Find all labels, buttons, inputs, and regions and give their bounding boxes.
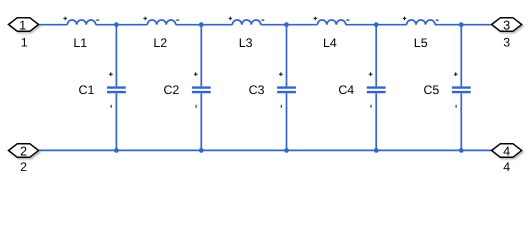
node junction dot top 5 (459, 22, 464, 27)
svg-text:3: 3 (503, 36, 510, 50)
svg-text:2: 2 (20, 160, 27, 174)
capacitor C4 (338, 25, 385, 151)
wire top rail segment port1 to L1 (39, 24, 68, 26)
wire bottom rail (39, 149, 492, 151)
port 1 (9, 18, 39, 50)
capacitor C2 (163, 25, 210, 151)
node junction dot bottom 2 (199, 148, 204, 153)
inductor L4 (314, 17, 350, 50)
wire top rail segment L2 to L3 (176, 24, 233, 26)
svg-text:C3: C3 (249, 83, 265, 97)
capacitor C5 (423, 25, 470, 151)
svg-text:L5: L5 (414, 36, 428, 50)
node junction dot top 3 (284, 22, 289, 27)
node junction dot top 4 (374, 22, 379, 27)
port 2 (9, 144, 39, 175)
wire top rail segment L4 to L5 (346, 24, 407, 26)
node junction dot top 2 (199, 22, 204, 27)
svg-text:4: 4 (503, 160, 510, 174)
svg-text:C1: C1 (79, 83, 95, 97)
svg-text:2: 2 (20, 144, 27, 158)
wire top rail segment L3 to L4 (261, 24, 318, 26)
svg-text:L2: L2 (153, 36, 167, 50)
wire top rail segment L5 to port3 (435, 24, 492, 26)
svg-text:L1: L1 (73, 36, 87, 50)
svg-text:4: 4 (503, 144, 510, 158)
port 3 (492, 18, 522, 50)
node junction dot top 1 (114, 22, 119, 27)
svg-text:3: 3 (503, 18, 510, 32)
port 4 (492, 144, 522, 175)
capacitor C1 (79, 25, 126, 151)
node junction dot bottom 4 (374, 148, 379, 153)
svg-text:C2: C2 (163, 83, 179, 97)
inductor L3 (229, 17, 265, 50)
svg-text:L3: L3 (239, 36, 253, 50)
capacitor C3 (249, 25, 296, 151)
inductor L5 (403, 17, 439, 50)
svg-text:C5: C5 (423, 83, 439, 97)
node junction dot bottom 1 (114, 148, 119, 153)
node junction dot bottom 3 (284, 148, 289, 153)
inductor L1 (63, 17, 99, 50)
node junction dot bottom 5 (459, 148, 464, 153)
svg-text:L4: L4 (323, 36, 337, 50)
svg-text:1: 1 (19, 18, 26, 32)
inductor L2 (143, 17, 179, 50)
svg-text:C4: C4 (338, 83, 354, 97)
wire top rail segment L1 to L2 (96, 24, 148, 26)
svg-text:1: 1 (21, 36, 28, 50)
